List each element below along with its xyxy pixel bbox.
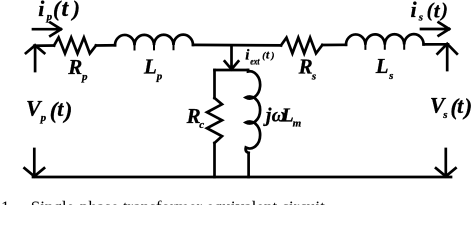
svg-text:Vs(t): Vs(t) xyxy=(430,92,472,121)
svg-text:Lp: Lp xyxy=(143,55,163,83)
arrow Vs top (up arrow at top of right terminal) xyxy=(438,44,457,70)
inductor Ls join feet ticks xyxy=(365,45,404,49)
wire Lp to Rs across node xyxy=(193,44,281,47)
wire shunt branch top bar xyxy=(215,69,249,72)
svg-text:Vp(t): Vp(t) xyxy=(26,96,72,125)
wire node drop to shunt branch with i_ext arrow xyxy=(225,46,239,70)
arrow Vp top (up arrow at top of left terminal) xyxy=(26,45,44,71)
svg-text:is(t): is(t) xyxy=(411,0,448,24)
inductor L2 humps (Ls) xyxy=(346,34,424,45)
svg-text:Rp: Rp xyxy=(67,55,88,83)
wire Ls to right arrow xyxy=(424,43,448,46)
arrow Vs bottom (down arrow at bottom of right terminal) xyxy=(436,149,456,176)
svg-text:Rc: Rc xyxy=(186,104,205,131)
wire top rail left segment xyxy=(34,44,54,47)
wire Rs to Ls xyxy=(322,43,346,46)
inductor L1 humps (Lp) xyxy=(115,35,193,46)
svg-text:Rs: Rs xyxy=(298,55,317,83)
svg-text:1. Single-phase transformer: 1. Single-phase transformer equivalent c… xyxy=(1,198,325,206)
arrow is current (right arrow under is label) xyxy=(421,22,449,35)
resistor R2 zigzag (Rs) xyxy=(281,38,322,54)
wire Lm branch lower segment xyxy=(247,153,250,177)
resistor R3 vertical zigzag (Rc) xyxy=(207,98,222,143)
inductor L3 vertical loops (jwLm) xyxy=(246,70,261,153)
inductor Lp join feet ticks xyxy=(135,46,174,50)
wire bottom rail xyxy=(33,176,451,179)
svg-text:ip(t): ip(t) xyxy=(38,0,80,23)
svg-text:jωLm: jωLm xyxy=(263,105,302,130)
resistor R1 zigzag (Rp) xyxy=(54,38,96,54)
arrow Vp bottom (down arrow at bottom of left terminal) xyxy=(25,149,45,176)
svg-text:Ls: Ls xyxy=(375,54,394,82)
svg-text:iext(t): iext(t) xyxy=(245,48,274,68)
wire Rc branch upper segment xyxy=(213,70,216,98)
wire between Rp and Lp xyxy=(96,44,115,47)
arrow ip current (right arrow under ip label) xyxy=(33,23,61,36)
wire Rc branch lower segment xyxy=(213,143,216,177)
